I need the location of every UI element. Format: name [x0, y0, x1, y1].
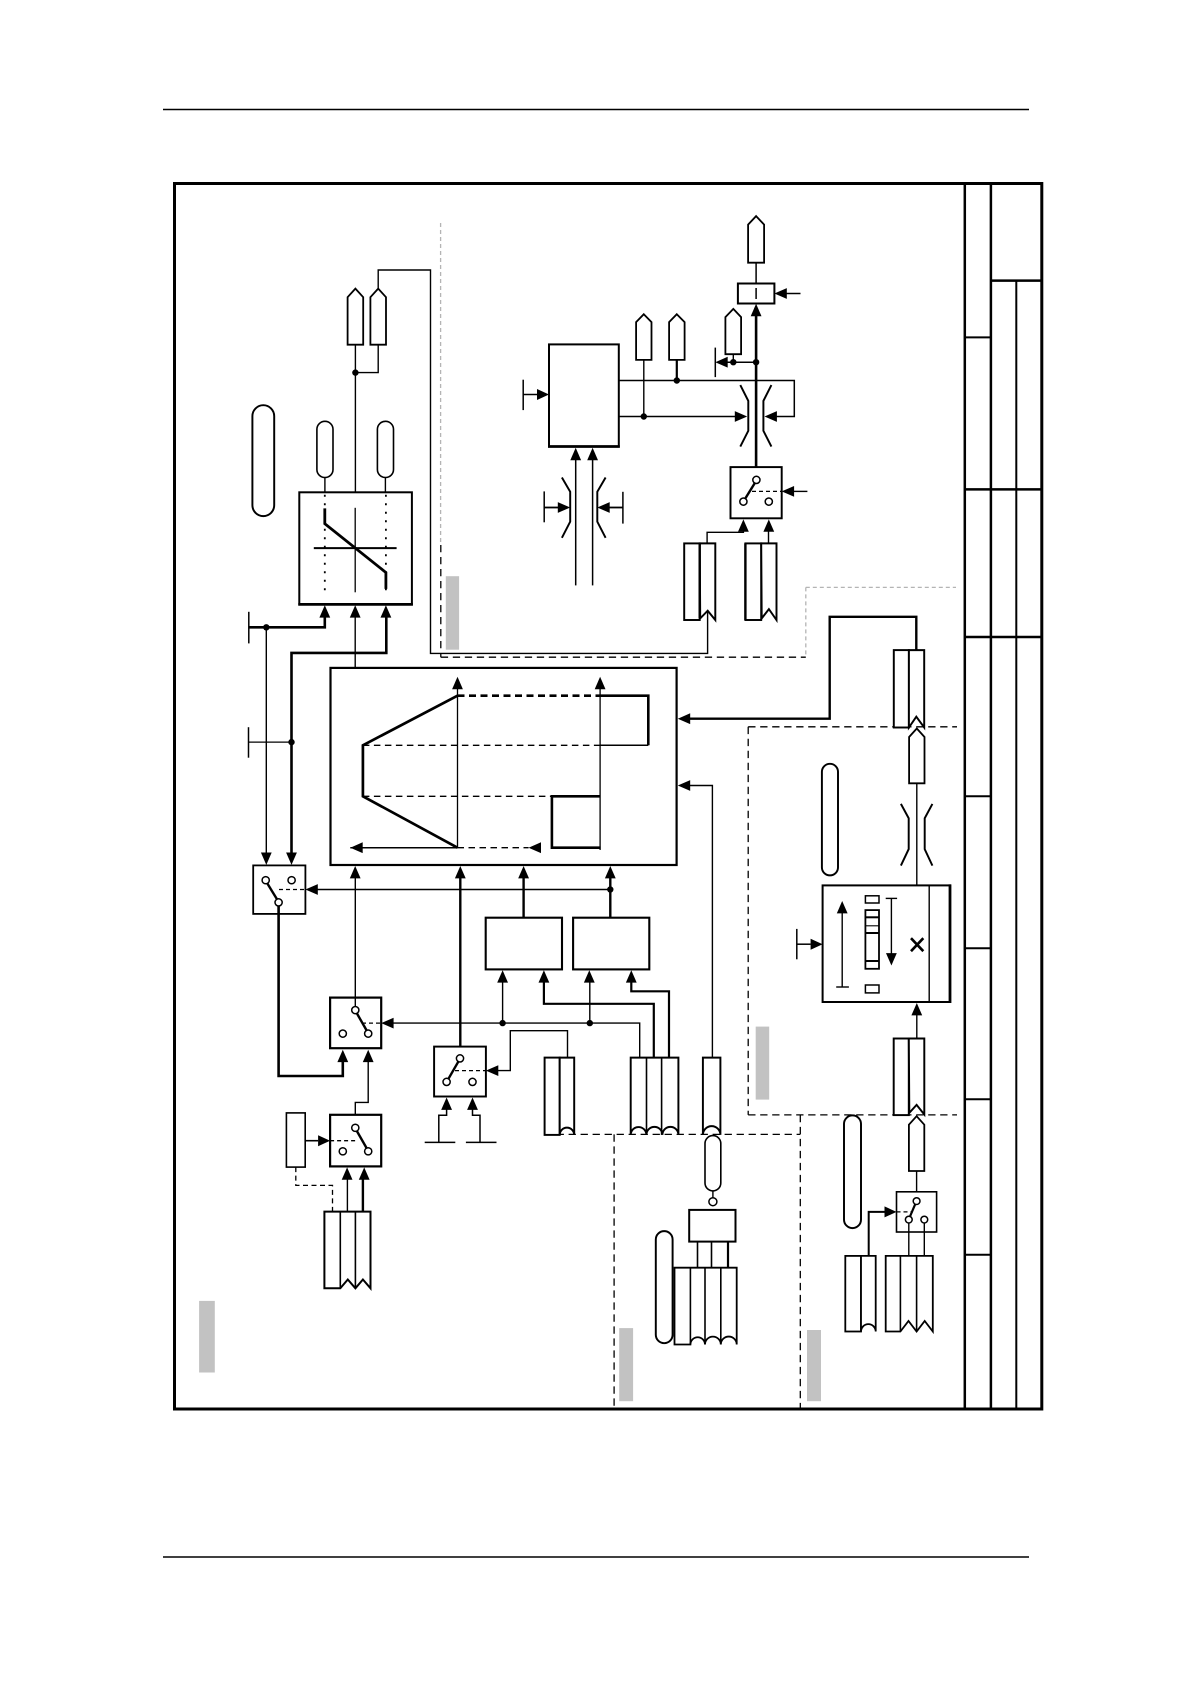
- dashed section border D left: [799, 1115, 801, 1408]
- S5 switch arm: [910, 1204, 915, 1216]
- U1 characteristic curve: [325, 508, 386, 589]
- MP stack line 2: [865, 925, 879, 927]
- RFG y-axis 2 arrowhead: [595, 677, 606, 689]
- U1 vertical axis: [354, 508, 356, 593]
- U1 dotted guide right: [385, 495, 387, 597]
- block: motorized potentiometer MP: [823, 885, 950, 1002]
- connector P2: [370, 289, 386, 345]
- wire: B2 input 2 elbow to flag F6: [631, 981, 669, 1057]
- arrow into S1 bottom input 1: [738, 519, 749, 531]
- frame wide-column divider: [991, 279, 1042, 282]
- FR2 divider 2: [916, 1256, 918, 1332]
- signal flag F1 right cell: [700, 543, 716, 620]
- wire: T4 to IL: [544, 507, 559, 509]
- switch S1: [731, 467, 782, 518]
- connector P1: [348, 289, 364, 345]
- S2 contact bottom-left: [339, 1030, 346, 1037]
- dashed section border B bottom: [748, 1114, 957, 1116]
- signal flag F5: [324, 1212, 370, 1289]
- wire: S2 output to RFG input1 is above; S2 top stem: [354, 998, 356, 1007]
- arrow into S3 bottom input 2: [467, 1098, 478, 1110]
- arrowhead lower limit into limiter left: [735, 411, 747, 422]
- gray marker bar G4: [807, 1330, 821, 1401]
- wire: S1 control tail: [793, 490, 808, 492]
- MP lower arrow: [890, 898, 892, 954]
- binector terminal T4 (IL left): [543, 491, 545, 522]
- RB bottom edge thick: [548, 445, 620, 448]
- MP stack line 4: [865, 960, 879, 962]
- MP stack line 1: [865, 916, 879, 918]
- MP right edge thick: [949, 884, 952, 1003]
- connector P6: [909, 729, 924, 784]
- S4 contact bottom-left: [339, 1148, 346, 1155]
- inverter block INV: [738, 284, 775, 304]
- S0 contact bottom: [275, 899, 282, 906]
- ramp-function generator block RFG: [331, 668, 677, 865]
- frame narrow divider f: [965, 1098, 991, 1100]
- wire: B1 input 1 stem: [502, 981, 504, 1023]
- constant source symbol K1: [425, 1109, 456, 1143]
- wire: RFG input4 from box B2: [609, 877, 611, 918]
- junction dot P3/lower net: [641, 413, 647, 419]
- junction dot on control net: [607, 886, 613, 892]
- changeover switch S0: [253, 865, 305, 914]
- wire: connector P2 to flag F1 (long elbow): [378, 270, 707, 653]
- S0 contact top-right: [288, 877, 295, 884]
- connector P3: [636, 314, 651, 360]
- RFG y-axis 2: [599, 688, 601, 850]
- limiter symbol B3 left bracket: [901, 804, 909, 866]
- wire: tap line: [726, 361, 756, 363]
- block: inverting characteristic U1: [299, 492, 412, 604]
- arrow into RFG right input 2: [678, 780, 690, 791]
- arrow into MP left input: [811, 939, 823, 950]
- connector P7: [909, 1116, 924, 1171]
- wire: T5 to IL: [608, 507, 623, 509]
- wire: TopP stem to inverter: [755, 263, 757, 284]
- signal flag F9: [675, 1268, 737, 1345]
- negation circle: [709, 1198, 717, 1206]
- S1 contact bottom-left: [740, 498, 747, 505]
- S3 switch arm: [449, 1062, 459, 1079]
- binector terminal T2: [248, 727, 250, 758]
- top rule: [163, 109, 1029, 111]
- arrow into S5 control: [885, 1206, 897, 1217]
- arrow into S3 bottom input 1: [441, 1098, 452, 1110]
- dashed section border A right (gray): [805, 587, 807, 657]
- junction dot on T1 wire: [263, 624, 269, 630]
- S3 contact bottom-left: [443, 1078, 450, 1085]
- wire: MP bottom input from flag F4: [916, 1015, 918, 1039]
- wire: R1b to S4 control: [305, 1140, 318, 1142]
- arrow into S2 control: [381, 1018, 393, 1029]
- wire: S2 input 2 from S4 output: [355, 1061, 368, 1125]
- wire: S5 output 2 to flag FR2: [923, 1223, 925, 1256]
- parameter capsule C4: [822, 764, 838, 876]
- F5 divider 1: [339, 1212, 341, 1289]
- RFG step 2 (bottom): [552, 796, 601, 847]
- RFG step 1 (top right): [600, 696, 648, 746]
- RFG dashed level 2: [363, 795, 552, 797]
- wire: T3 to RB input: [523, 394, 538, 396]
- binector terminal T1: [248, 612, 250, 644]
- arrow into S1 control: [782, 486, 794, 497]
- RFG step 1 bottom: [600, 744, 648, 746]
- dashed section border B top: [748, 726, 957, 728]
- S5 contact top: [913, 1198, 920, 1205]
- S2 contact bottom-right: [365, 1030, 372, 1037]
- arrow into B2 bottom input 2: [626, 970, 637, 982]
- wire: RB upper output to limiter (upper limit): [619, 381, 795, 417]
- arrow into U1 bottom input 3: [381, 605, 392, 617]
- dashed section border C top: [545, 1133, 801, 1135]
- connector P4: [669, 314, 685, 360]
- wire: T2 tap: [249, 741, 292, 743]
- junction dot P4/upper net: [674, 377, 680, 383]
- arrow into S3 control: [486, 1065, 498, 1076]
- frame column line 2: [990, 184, 993, 1410]
- arrow into S2 bottom input 1: [337, 1050, 348, 1062]
- junction dot on S0 input 2 net: [288, 739, 294, 745]
- wire: junction down to changeover switch S0: [265, 627, 267, 854]
- U1 dotted guide left: [324, 495, 326, 597]
- signal flag F3 left cell: [894, 650, 909, 727]
- junction dot P5/tap: [730, 359, 736, 365]
- wire: T1 to U1 input 1: [249, 616, 325, 627]
- signal flag F1 left cell: [684, 543, 700, 620]
- wire: RFG input3 from box B1: [522, 877, 524, 918]
- RFG y-axis 1 arrowhead: [452, 677, 463, 689]
- bottom rule: [163, 1556, 1029, 1558]
- U1 horizontal axis: [314, 547, 397, 549]
- parameter capsule C7: [844, 1115, 861, 1228]
- gray marker bar G2: [756, 1027, 770, 1100]
- parameter capsule C0: [252, 405, 274, 516]
- logic block AG: [689, 1210, 735, 1242]
- wire: P6 to motor-pot block: [916, 783, 918, 885]
- signal flag F3 right cell: [909, 650, 924, 727]
- wire: C5 to negation circle: [712, 1191, 714, 1198]
- wire: S3 control net to flag F7: [497, 1031, 568, 1071]
- limiter symbol B3 right bracket: [925, 804, 933, 866]
- arrow into RB left input: [537, 389, 549, 400]
- gray marker bar G5: [199, 1301, 215, 1373]
- arrow into RB bottom input 2: [587, 448, 598, 460]
- switch S2: [330, 998, 381, 1049]
- limiter symbol OL right bracket: [763, 385, 771, 447]
- switch S4: [330, 1115, 381, 1167]
- binector terminal T6 (output tap): [714, 348, 716, 378]
- wire: S4 input 1 from flag F5: [346, 1178, 348, 1211]
- switch S3: [434, 1047, 486, 1097]
- wire: S0 output elbow to S2: [279, 906, 343, 1076]
- MP lower arrowhead: [886, 953, 897, 965]
- constant source symbol K2: [466, 1109, 497, 1143]
- S3 control dashed: [455, 1070, 486, 1072]
- junction dot control/B2: [587, 1020, 593, 1026]
- block: rounding RB: [549, 344, 619, 446]
- wire: C2 stem: [384, 478, 386, 493]
- S5 contact bottom-right: [921, 1216, 928, 1223]
- binector terminal T3: [522, 380, 524, 410]
- MP inner divider: [928, 885, 930, 1002]
- S2 contact top: [352, 1007, 359, 1014]
- wire: T7 to MP: [797, 943, 811, 945]
- arrow into INV right: [774, 288, 786, 299]
- wire: S1 input 1 elbow from flag F1: [707, 530, 743, 543]
- arrowhead upper limit into limiter right: [765, 411, 777, 422]
- arrowhead into IL left: [558, 502, 570, 513]
- wire: P7 to S5: [916, 1171, 918, 1198]
- RFG y-axis 1: [457, 688, 459, 848]
- wire: P5 stem: [732, 354, 734, 362]
- arrow into B1 bottom input 2: [539, 970, 550, 982]
- main frame: [175, 184, 1042, 1410]
- signal flag FR2: [886, 1256, 933, 1332]
- arrow into S4 bottom input 2: [359, 1167, 370, 1179]
- F6 divider 2: [661, 1058, 663, 1135]
- S1 switch arm: [745, 483, 755, 498]
- arrow into RFG bottom input 2: [455, 866, 466, 878]
- signal flag FR1 right cell: [861, 1256, 876, 1332]
- parameter capsule C5: [705, 1136, 721, 1191]
- connector TopP: [748, 216, 764, 263]
- frame full divider b: [965, 488, 1042, 491]
- limiter symbol IL right bracket: [597, 478, 605, 538]
- wire: RB lower output to limiter (lower limit): [619, 416, 736, 418]
- FR2 divider 1: [899, 1256, 901, 1332]
- F5 divider 2: [354, 1212, 356, 1289]
- S0 control dashed: [279, 889, 305, 891]
- RFG ramp trapezoid: [363, 696, 458, 848]
- wire: RFG right input 2 elbow from flag F8: [689, 786, 713, 1058]
- block B2: [573, 918, 649, 970]
- binector box R1b: [286, 1113, 305, 1167]
- arrow into B2 bottom input 1: [584, 970, 595, 982]
- F2 thick left edge: [744, 543, 746, 620]
- MP raise arrow: [841, 912, 843, 987]
- S4 contact top: [352, 1124, 359, 1131]
- S4 control dashed: [330, 1140, 358, 1142]
- RFG dashed-bottom arrowhead: [529, 842, 541, 853]
- signal flag F2 left cell: [745, 543, 761, 620]
- S2 switch arm: [357, 1013, 367, 1030]
- signal flag FR1 left cell: [845, 1256, 861, 1332]
- arrow into RFG bottom input 3: [518, 866, 529, 878]
- frame narrow divider d: [965, 795, 991, 797]
- arrow into S4 bottom input 1: [342, 1167, 353, 1179]
- RFG dashed bottom: [458, 847, 529, 849]
- arrow into MP bottom: [911, 1003, 922, 1015]
- wire: RFG input2 from S3 output: [459, 877, 461, 1055]
- S5 contact bottom-left: [905, 1216, 912, 1223]
- RFG top dashed (thick): [458, 694, 601, 697]
- limiter symbol OL left bracket: [740, 385, 748, 447]
- signal flag F2 right cell: [761, 543, 776, 620]
- wire: AG output stem 2: [711, 1242, 713, 1268]
- F1 thick divider: [699, 543, 701, 618]
- F9 divider 1: [689, 1268, 691, 1345]
- wire: S4 input 2 from flag F5: [362, 1178, 364, 1211]
- arrowhead into T6: [715, 357, 727, 368]
- S4 switch arm: [357, 1131, 367, 1148]
- wire: AG output stem 3: [727, 1242, 729, 1268]
- arrow into U1 bottom input 2: [350, 605, 361, 617]
- wire: U1 middle stub to ramp generator top: [354, 616, 356, 668]
- wire: C1 stem: [324, 478, 326, 493]
- MP selector stack: [865, 910, 879, 969]
- wire: S5 control from flag FR1: [869, 1212, 885, 1256]
- dashed section border A top-right (gray): [806, 586, 956, 588]
- wire: AG output stem 1: [697, 1242, 699, 1268]
- arrow into RFG right input 1: [678, 713, 690, 724]
- dashed section border B left: [747, 727, 749, 1115]
- arrow into RFG bottom input 1: [350, 866, 361, 878]
- S3 contact bottom-right: [469, 1078, 476, 1085]
- wire: S0 control line from box2 output net: [316, 889, 610, 891]
- wire: INV control tail: [785, 293, 800, 295]
- wire: P3 stem to lower limit net: [643, 360, 645, 417]
- block B1: [486, 918, 562, 970]
- wire: B2 input 1 stem: [589, 981, 591, 1023]
- junction dot P1/P2: [352, 369, 358, 375]
- wire: S1 input 2 from flag F2: [768, 530, 770, 543]
- signal flag F7 left cell: [545, 1058, 560, 1135]
- MP raise base tick: [836, 986, 849, 988]
- MP selector top cell: [865, 896, 879, 903]
- dashed wire: R1b to flag F5: [296, 1167, 333, 1212]
- junction dot control/B1: [499, 1020, 505, 1026]
- signal flag F8: [703, 1058, 721, 1135]
- arrow into S0 top input 1: [261, 853, 272, 865]
- arrow into S1 bottom input 2: [763, 519, 774, 531]
- S2 control dashed: [362, 1022, 381, 1024]
- arrow into S0 top input 2: [286, 853, 297, 865]
- frame narrow divider g: [965, 1254, 991, 1256]
- RFG time arrowhead left: [350, 842, 362, 853]
- wire: RB bottom input 2 stem: [592, 459, 594, 586]
- arrowhead into IL right: [597, 502, 609, 513]
- S1 contact bottom-right: [765, 498, 772, 505]
- F9 divider 2: [704, 1268, 706, 1345]
- wire: U1 input 3 net (elbow): [292, 616, 387, 854]
- binector terminal T7 (MP input): [796, 929, 798, 959]
- S3 contact top: [456, 1055, 463, 1062]
- wire: B1 input 2 elbow to flag F6: [544, 981, 654, 1057]
- wire: S5 output 1 to flag FR2: [908, 1223, 910, 1256]
- signal flag F6: [631, 1058, 679, 1135]
- MP multiply X: [911, 938, 923, 951]
- frame narrow divider e: [965, 947, 991, 949]
- signal flag F4 left cell: [894, 1039, 909, 1116]
- parameter capsule C2: [377, 421, 393, 477]
- INV minus mark: [755, 288, 757, 299]
- S0 switch arm: [267, 883, 277, 899]
- wire: P1/P2 junction down to transfer block: [355, 345, 378, 493]
- parameter capsule C6: [656, 1231, 673, 1343]
- dashed section border A bottom: [441, 656, 806, 658]
- signal flag F4 right cell: [909, 1039, 925, 1115]
- F9 divider 3: [720, 1268, 722, 1345]
- wire: P4 stem to upper limit net: [676, 360, 678, 381]
- gray marker bar G1: [446, 576, 459, 650]
- dashed section border A left lower (black): [440, 545, 442, 657]
- connector P5: [725, 309, 741, 354]
- switch S5: [897, 1192, 937, 1232]
- wire: RB bottom input 1 stem: [575, 459, 577, 586]
- MP stack line 3: [865, 932, 879, 934]
- arrow into INV bottom: [751, 304, 762, 316]
- U1 bottom edge (thick): [298, 603, 413, 606]
- signal flag F7 right cell: [560, 1058, 575, 1135]
- MP lower arrow top tick: [886, 897, 897, 899]
- S4 contact bottom-right: [365, 1148, 372, 1155]
- frame column line 3: [1015, 281, 1017, 1409]
- dashed section border C left: [613, 1134, 615, 1407]
- wire: RFG right input 1 elbow from flag F3: [689, 617, 917, 719]
- arrow into RFG bottom input 4: [605, 866, 616, 878]
- arrow into B1 bottom input 1: [497, 970, 508, 982]
- RFG bottom-left time arrow: [350, 847, 457, 849]
- wire: RFG input1 from S2 output: [354, 877, 356, 1007]
- gray marker bar G3: [619, 1328, 633, 1401]
- S1 control dashed: [752, 490, 782, 492]
- arrow into S4 control: [318, 1135, 330, 1146]
- RFG dashed level 1: [363, 744, 600, 746]
- parameter capsule C1: [317, 421, 333, 477]
- frame narrow divider a: [965, 336, 991, 338]
- arrow into S2 bottom input 2: [363, 1050, 374, 1062]
- S1 contact top: [753, 476, 760, 483]
- junction dot main line/tap: [753, 359, 759, 365]
- wire: S2 control net to flag F6: [392, 1023, 640, 1058]
- S5 control dashed: [897, 1211, 914, 1213]
- S0 contact top-left: [262, 877, 269, 884]
- dashed section border A left (gray): [440, 223, 442, 545]
- F6 divider 1: [646, 1058, 648, 1135]
- arrow into U1 bottom input 1: [319, 605, 330, 617]
- frame full divider c: [965, 636, 1042, 639]
- arrow into S0 control: [305, 884, 317, 895]
- wire: main signal line (limiter output up to INV): [755, 315, 758, 476]
- binector terminal T5 (IL right): [622, 492, 624, 524]
- limiter symbol IL left bracket: [562, 478, 570, 538]
- MP raise arrowhead: [837, 901, 848, 913]
- frame column line 1: [964, 184, 967, 1410]
- MP selector bottom cell: [865, 985, 879, 993]
- arrow into RB bottom input 1: [570, 448, 581, 460]
